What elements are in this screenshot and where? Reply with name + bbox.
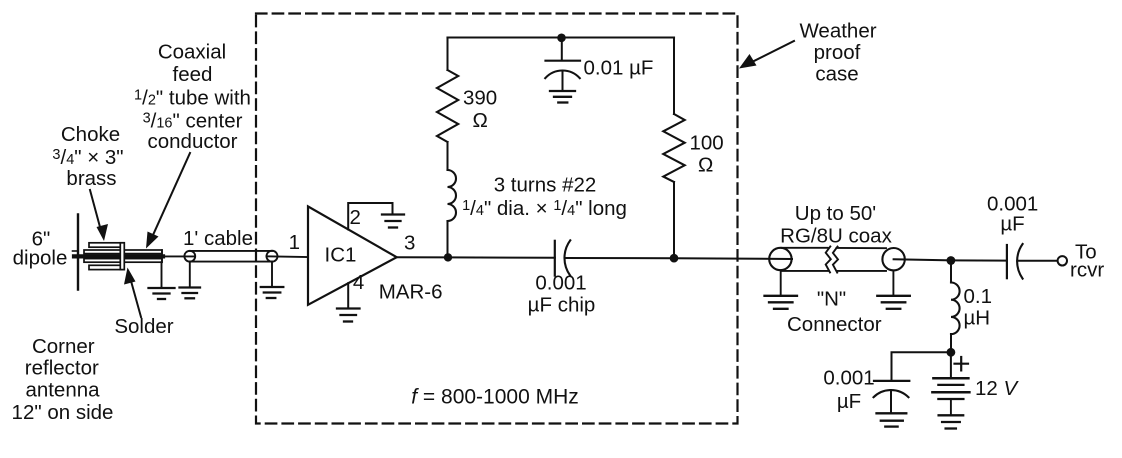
capacitor C3 0.001 uF output [1006,245,1008,278]
1' cable body [190,250,272,252]
svg-text:Ω: Ω [473,109,488,132]
svg-text:f = 800-1000 MHz: f = 800-1000 MHz [411,385,579,408]
svg-text:antenna: antenna [25,379,100,402]
svg-text:100: 100 [690,132,724,155]
svg-text:RG/8U coax: RG/8U coax [780,224,892,247]
svg-text:3/4" × 3": 3/4" × 3" [52,146,123,169]
wire: tube to cable connector [163,255,194,257]
svg-text:0.001: 0.001 [535,272,586,295]
node: top rail junction [557,34,566,43]
svg-text:3 turns #22: 3 turns #22 [494,174,597,197]
choke brass sleeve [89,243,124,270]
svg-text:case: case [815,63,858,86]
connector (1' cable right) [267,251,278,262]
wire: resistor to top rail [447,38,449,71]
svg-text:µF: µF [837,390,861,413]
svg-text:"N": "N" [817,288,846,311]
resistor 100 ohm [663,114,684,182]
wire: cable to amp input [267,255,309,258]
pin 4 label [353,271,364,294]
wire: 100 ohm down to main line [673,182,675,258]
capacitor C1 0.01 uF [561,38,563,60]
wire: amp output to node [397,256,448,258]
node: main line junction under 100 ohm [670,254,679,263]
svg-text:0.001: 0.001 [823,367,874,390]
ground under bypass capacitor [877,412,907,414]
svg-text:Coaxial: Coaxial [158,41,226,64]
label: Up to 50' RG/8U coax [780,202,892,247]
node: supply junction [947,348,956,357]
coaxial feed tube (1/2 inch tube) [84,250,162,262]
label: Choke 3/4" x 3" brass [52,123,123,190]
svg-text:Choke: Choke [61,123,120,146]
node: 6" dipole element [77,215,79,290]
svg-text:0.1: 0.1 [964,285,993,308]
wire: capacitor to output terminal [1017,260,1057,262]
svg-text:Corner: Corner [32,335,95,358]
svg-text:Weather: Weather [799,20,876,43]
ground under right N connector [892,270,894,295]
terminal: To rcvr (open circle) [1058,256,1067,265]
svg-text:reflector: reflector [25,356,99,379]
arrow from Solder label to choke joint [131,281,141,317]
svg-text:Ω: Ω [698,154,713,177]
pin 2 wire to ground [348,203,392,229]
ground under battery [939,414,964,416]
svg-text:conductor: conductor [147,130,237,153]
svg-text:feed: feed [173,63,213,86]
svg-text:0.01 µF: 0.01 µF [584,57,654,80]
wire: coil to resistor [447,142,449,170]
wire: supply node to bypass capacitor [892,352,951,380]
label: 3 turns #22, 1/4" dia x 1/4" long [462,174,627,221]
svg-text:2: 2 [350,206,361,229]
svg-text:dipole: dipole [13,247,68,270]
svg-text:MAR-6: MAR-6 [379,281,443,304]
svg-text:brass: brass [66,167,116,190]
label: 6" dipole [13,228,68,270]
ground at feed tube end [161,262,163,288]
svg-text:rcvr: rcvr [1070,259,1104,282]
coax break zigzag [826,246,831,272]
wire: inductor to supply node [950,334,952,352]
wire: node up to coil [447,221,449,257]
svg-text:3: 3 [404,232,415,255]
wire: top rail down to 100 ohm [673,38,675,115]
node: output junction [947,256,956,265]
ground at pin 2 [382,213,404,215]
svg-text:µF: µF [1000,213,1024,236]
label: "N" Connector [787,288,882,337]
svg-text:IC1: IC1 [325,244,357,267]
ground at pin 4 [337,307,360,309]
capacitor C2 0.001 uF chip [554,241,556,276]
pin 1 label [289,231,300,254]
wire: junction to coax connector [674,257,792,260]
pin 2 label [350,206,361,229]
label: 1' cable [183,227,253,250]
label: Weather proof case [799,20,876,86]
wire: center conductor (thick) [74,254,163,258]
svg-text:µH: µH [964,307,991,330]
weather proof case dashed enclosure [256,14,738,424]
connector (1' cable left) [184,251,195,262]
arrow from conductor label to feed tube [153,153,190,235]
inductor L2 0.1 uH [951,283,960,335]
label: 0.001 uF bypass [823,367,874,413]
pin 3 label [404,232,415,255]
label: Corner reflector antenna 12" on side [12,335,114,424]
wire: node to chip capacitor [448,256,555,258]
battery B1 12 V [933,377,968,380]
op-amp IC1 (MAR-6 amplifier triangle) [308,206,397,304]
svg-text:µF chip: µF chip [528,294,596,317]
arrow from brass label to choke [90,190,100,227]
svg-text:12" on side: 12" on side [12,401,114,424]
ground under right cable connector [271,262,273,287]
svg-text:12 V: 12 V [975,377,1020,400]
connector: N connector right circle [882,248,904,270]
wire: node down to choke inductor [950,261,952,283]
wire: supply node to battery [950,352,952,377]
svg-text:Solder: Solder [114,315,173,338]
svg-text:1: 1 [289,231,300,254]
svg-text:Up to 50': Up to 50' [795,202,876,225]
label: 12 V [975,377,1020,400]
pin 4 wire to ground [347,283,349,308]
label: f = 800-1000 MHz [411,385,579,408]
svg-text:1' cable: 1' cable [183,227,253,250]
svg-text:390: 390 [463,87,497,110]
coax cable body (RG/8U) [782,247,828,249]
wire: top rail [448,36,675,38]
svg-text:4: 4 [353,271,364,294]
wire: chip capacitor to junction [565,257,674,259]
capacitor C4 0.001 uF bypass [874,380,909,382]
wire: node to output capacitor [951,259,1007,261]
arrow pointing to weather proof case [751,41,794,63]
inductor L1: 3 turns #22 coil [448,170,457,221]
svg-text:Connector: Connector [787,313,882,336]
label: 0.01 uF [584,57,654,80]
label: Solder [114,315,173,338]
connector: N connector left circle [769,248,791,270]
plus sign [955,363,969,365]
svg-text:proof: proof [814,41,861,64]
resistor 390 ohm [437,70,458,142]
wire: right connector to node [894,259,951,260]
node: amp output junction [444,253,452,261]
ground under left cable connector [189,262,191,288]
svg-text:1/4" dia. × 1/4" long: 1/4" dia. × 1/4" long [462,197,627,220]
ground under 0.01 uF [550,90,575,92]
ground under left N connector [780,270,782,295]
label: Coaxial feed 1/2" tube with 3/16" center conductor [134,41,251,154]
label: To rcvr [1070,241,1104,282]
